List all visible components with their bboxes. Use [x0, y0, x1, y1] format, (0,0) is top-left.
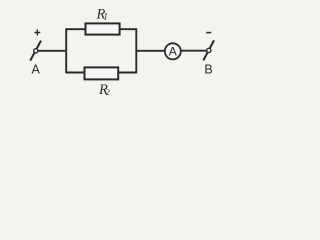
svg-text:B: B — [204, 63, 212, 77]
svg-text:A: A — [169, 45, 178, 59]
svg-text:A: A — [32, 63, 41, 77]
